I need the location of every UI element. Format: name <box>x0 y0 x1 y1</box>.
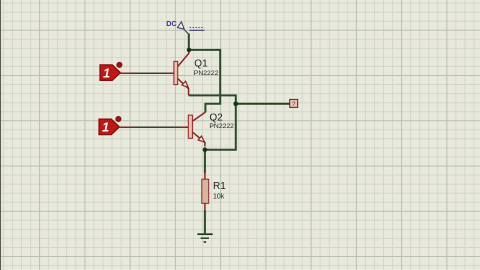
voltage probe DC <box>166 19 204 34</box>
svg-text:DC: DC <box>166 19 176 28</box>
resistor R1 <box>202 172 209 211</box>
wire Q1 emitter run to right drop <box>189 95 236 103</box>
wire J1 to Q2 collector (top loop) <box>189 50 220 112</box>
wire terminal1-top to Q1 base <box>120 72 174 74</box>
transistor Q2 <box>188 112 205 146</box>
transistor Q1 <box>174 50 189 95</box>
svg-text:R1: R1 <box>213 181 226 192</box>
svg-text:PN2222: PN2222 <box>194 70 219 77</box>
node J1 (probe/collector junction) <box>187 48 192 53</box>
wire J3 down to R1 <box>204 150 206 173</box>
svg-text:Q1: Q1 <box>194 58 208 69</box>
terminal 1 (bottom) <box>99 117 121 135</box>
wire right drop to Q2 emitter junction <box>205 104 236 150</box>
svg-text:PN2222: PN2222 <box>209 123 234 130</box>
wire output <box>236 103 290 105</box>
wire probe stem to node J1 <box>188 34 190 51</box>
svg-text:1: 1 <box>103 66 110 80</box>
node J3 (emitter/R1 junction) <box>203 147 208 152</box>
wire terminal1-bottom to Q2 base <box>119 126 188 128</box>
wire R1 to ground <box>204 210 206 233</box>
svg-text:1: 1 <box>102 121 109 135</box>
terminal 1 (top) <box>100 62 122 80</box>
ground <box>197 234 212 242</box>
svg-text:10k: 10k <box>213 193 225 200</box>
node J2 (output junction) <box>233 101 238 106</box>
output terminal <box>290 99 298 108</box>
svg-text:Q2: Q2 <box>209 113 223 124</box>
